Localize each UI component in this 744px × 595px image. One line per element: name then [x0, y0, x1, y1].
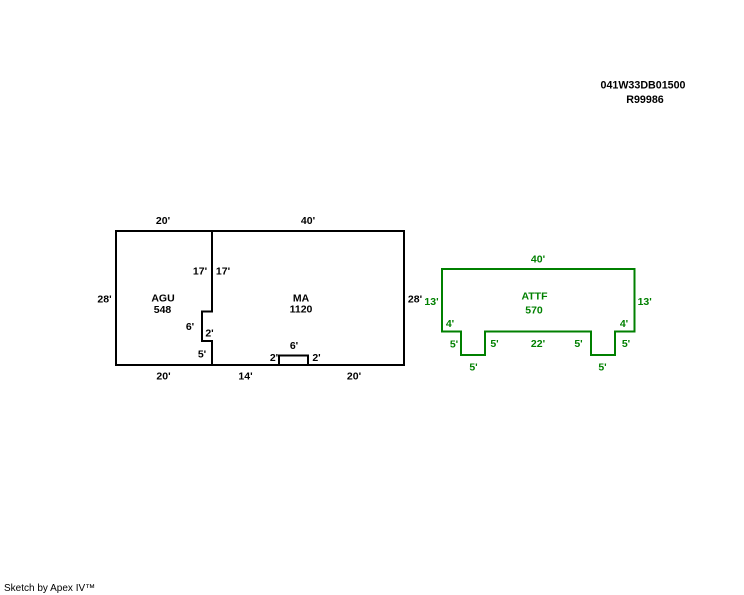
svg-text:22': 22': [531, 338, 545, 350]
svg-text:40': 40': [301, 215, 315, 227]
svg-text:20': 20': [156, 215, 170, 227]
svg-text:2': 2': [205, 328, 213, 340]
svg-text:5': 5': [469, 362, 477, 374]
svg-text:13': 13': [638, 296, 652, 308]
svg-text:R99986: R99986: [626, 94, 663, 106]
svg-text:28': 28': [97, 294, 111, 306]
svg-text:1120: 1120: [290, 304, 313, 316]
svg-text:041W33DB01500: 041W33DB01500: [601, 80, 686, 92]
svg-text:5': 5': [574, 338, 582, 350]
svg-text:2': 2': [312, 352, 320, 364]
black wall: interior divider with 2x6 notch: [202, 230, 212, 366]
svg-text:28': 28': [408, 294, 422, 306]
black outline: outer rectangle of AGU+MA: [116, 231, 404, 365]
svg-text:17': 17': [216, 266, 230, 278]
svg-text:20': 20': [347, 371, 361, 383]
svg-text:14': 14': [238, 371, 252, 383]
svg-text:Sketch by Apex IV™: Sketch by Apex IV™: [4, 583, 95, 594]
svg-text:ATTF: ATTF: [521, 291, 548, 303]
green outline: ATTF shape with two 5x5 legs: [442, 269, 635, 355]
svg-text:570: 570: [525, 305, 543, 317]
svg-text:4': 4': [620, 318, 628, 330]
svg-text:5': 5': [598, 362, 606, 374]
svg-text:4': 4': [446, 318, 454, 330]
svg-text:5': 5': [450, 339, 458, 351]
svg-text:6': 6': [186, 321, 194, 333]
svg-text:17': 17': [193, 266, 207, 278]
svg-text:20': 20': [156, 371, 170, 383]
svg-text:5': 5': [622, 338, 630, 350]
svg-text:5': 5': [198, 349, 206, 361]
svg-text:40': 40': [531, 254, 545, 266]
svg-text:AGU: AGU: [151, 293, 174, 305]
svg-text:548: 548: [154, 304, 172, 316]
svg-text:13': 13': [424, 296, 438, 308]
svg-text:2': 2': [270, 352, 278, 364]
svg-text:5': 5': [490, 338, 498, 350]
svg-text:6': 6': [290, 340, 298, 352]
black wall: bottom 6' bump: [279, 356, 308, 367]
